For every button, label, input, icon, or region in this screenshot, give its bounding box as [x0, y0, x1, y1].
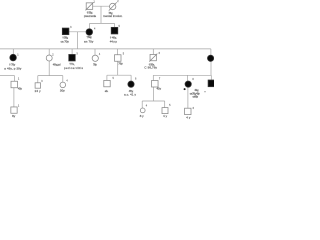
- wire left edge sibship: [0, 75, 14, 77]
- svg-text:40y: 40y: [18, 87, 23, 91]
- miscarriage dot: [184, 88, 186, 90]
- wire genII descent: [77, 32, 79, 49]
- wire drop to II-square: [114, 23, 116, 27]
- genV male V3 square: [162, 108, 168, 114]
- genIII male III6 deceased square: [150, 54, 156, 60]
- wire sibship F children: [142, 100, 165, 102]
- svg-text:5: 5: [119, 25, 121, 28]
- genIV male IV1 square: [11, 81, 18, 88]
- svg-text:3: 3: [70, 26, 72, 29]
- svg-text:24 y: 24 y: [35, 89, 42, 93]
- genIII female III4 circle: [92, 55, 98, 61]
- wire III-5 descent: [117, 61, 119, 75]
- svg-text:4: 4: [94, 27, 96, 30]
- svg-text:4: 4: [66, 79, 68, 82]
- wire drop H: [210, 75, 212, 80]
- svg-text:4: 4: [146, 104, 148, 107]
- wire drop B: [37, 76, 39, 83]
- genII male II3 affected square: [111, 27, 118, 34]
- svg-text:C 98,78y: C 98,78y: [144, 66, 157, 70]
- wire sibship D E: [107, 74, 131, 76]
- genIV female IV7 affected circle: [185, 81, 191, 87]
- svg-text:ab.: ab.: [105, 89, 109, 93]
- wire G descent: [187, 87, 189, 108]
- genI female I2 deceased circle: [110, 3, 116, 9]
- small mark: [204, 91, 205, 92]
- svg-text:a.c. 41 y: a.c. 41 y: [124, 92, 136, 96]
- genIV female IV5 affected circle: [128, 81, 134, 87]
- svg-text:3: 3: [76, 53, 78, 56]
- genIII male III3 affected square: [69, 54, 76, 61]
- svg-text:8y: 8y: [12, 114, 16, 118]
- wire sibship F G H: [153, 74, 211, 76]
- svg-text:76y: 76y: [118, 61, 123, 65]
- wire drop E: [130, 75, 132, 81]
- wire drop C: [62, 76, 64, 83]
- wire genI marriage: [93, 5, 110, 7]
- svg-text:a 46y, p 39y: a 46y, p 39y: [4, 67, 22, 71]
- svg-text:78y: 78y: [93, 62, 97, 66]
- wire drop III-5: [117, 49, 119, 55]
- wire drop III-6: [152, 49, 154, 55]
- wire sibship B C: [38, 75, 63, 77]
- genII female II2 affected circle: [86, 29, 93, 36]
- wire III-7 descent: [210, 62, 212, 76]
- genIII female III2 circle: [46, 55, 52, 61]
- wire drop III-3: [71, 49, 73, 55]
- genV female V2 circle: [140, 108, 145, 113]
- genIV male IV6 square: [152, 81, 159, 88]
- svg-text:4 y: 4 y: [186, 115, 191, 119]
- wire drop F child1: [141, 101, 143, 108]
- genIII female III1 affected circle: [10, 54, 17, 61]
- svg-text:mental involut.: mental involut.: [103, 14, 123, 18]
- wire drop to II-circle: [89, 23, 91, 28]
- genIV male IV4 square: [104, 80, 110, 86]
- svg-text:3: 3: [41, 80, 43, 83]
- svg-text:ca 70y: ca 70y: [61, 39, 70, 43]
- genIII male III5 square: [115, 55, 122, 62]
- genV male V1 square: [11, 107, 17, 113]
- wire drop F: [152, 75, 154, 80]
- svg-text:1: 1: [18, 105, 20, 108]
- svg-text:6: 6: [159, 52, 161, 55]
- wire drop III-2: [48, 49, 50, 55]
- svg-text:8 y: 8 y: [140, 114, 144, 118]
- wire drop III-4: [94, 49, 96, 55]
- genIV male IV2 square: [35, 83, 40, 88]
- svg-text:an 70y: an 70y: [84, 40, 94, 44]
- wire drop G: [187, 75, 189, 81]
- svg-text:ca 89y: ca 89y: [193, 94, 199, 98]
- svg-text:5: 5: [113, 77, 115, 80]
- wire genI descent: [100, 6, 102, 23]
- svg-text:4 y: 4 y: [163, 114, 167, 118]
- svg-text:4: 4: [99, 53, 101, 56]
- svg-text:1: 1: [17, 54, 19, 57]
- wire genII sibship: [90, 22, 115, 24]
- svg-text:7: 7: [159, 78, 161, 81]
- wire drop III-7: [210, 49, 212, 55]
- svg-text:pericarditis: pericarditis: [64, 66, 84, 70]
- wire genII marriage: [69, 31, 86, 33]
- svg-text:5: 5: [169, 104, 171, 107]
- wire drop III-1: [12, 49, 14, 54]
- svg-text:43 y: 43 y: [157, 87, 162, 91]
- genI male I1 deceased square: [86, 3, 93, 10]
- svg-text:8: 8: [192, 78, 194, 81]
- svg-text:6: 6: [135, 78, 137, 81]
- wire drop D: [106, 75, 108, 80]
- wire genIII sibship: [0, 48, 211, 50]
- wire F descent: [153, 87, 155, 101]
- genIII female III7 affected circle: [207, 55, 213, 61]
- svg-text:6: 6: [193, 107, 195, 110]
- svg-text:48 y, pd: 48 y, pd: [53, 63, 61, 67]
- svg-text:30y: 30y: [60, 89, 65, 93]
- svg-text:pneumonia: pneumonia: [84, 14, 96, 18]
- wire drop F child2: [164, 101, 166, 108]
- svg-text:2: 2: [117, 0, 119, 3]
- wire A to A2: [13, 88, 15, 107]
- svg-text:44 y p: 44 y p: [110, 39, 118, 43]
- svg-text:2: 2: [52, 53, 54, 56]
- svg-text:1: 1: [94, 0, 96, 3]
- genIV female IV3 circle: [60, 82, 66, 88]
- wire III-2 descent: [48, 61, 50, 76]
- svg-text:5: 5: [123, 53, 125, 56]
- genV male V4 square: [185, 108, 191, 114]
- svg-text:1: 1: [18, 77, 20, 80]
- wire drop A: [13, 76, 15, 82]
- genII male II1 affected square: [62, 28, 69, 35]
- genIV male IV8 affected square: [208, 80, 215, 87]
